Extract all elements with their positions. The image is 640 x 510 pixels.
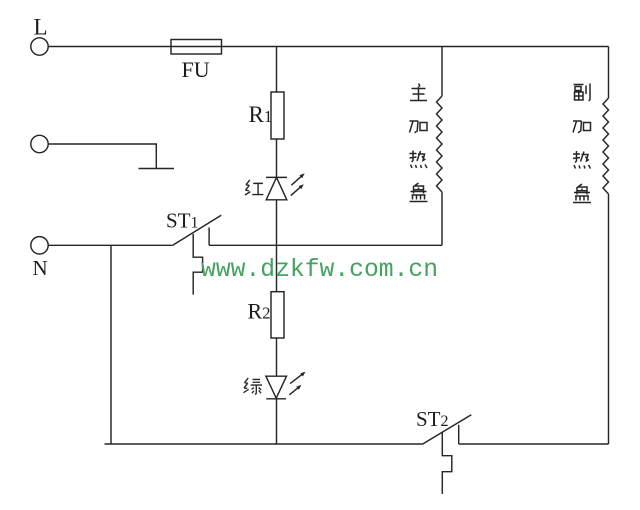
terminal L [31,38,48,55]
LED green [266,372,306,399]
wire LED green to bottom [276,399,278,444]
terminal N [31,237,48,254]
svg-text:www.dzkfw.com.cn: www.dzkfw.com.cn [201,256,438,284]
svg-text:ST2: ST2 [416,407,449,431]
fuse FU [171,40,222,55]
svg-text:FU: FU [182,57,210,82]
terminal earth [31,135,48,152]
label 主加热盘 [410,84,428,202]
resistor R1 [271,92,284,139]
svg-text:R2: R2 [248,299,271,324]
wire R2 to LED green [276,338,278,376]
svg-text:ST1: ST1 [166,209,199,233]
wire main vertical top [276,47,278,93]
label green 绿 [243,378,262,394]
wire ST2 output [459,443,609,445]
earth bar [139,168,175,170]
wire left branch [110,245,112,444]
resistor R2 [271,292,284,338]
svg-text:R1: R1 [249,102,273,127]
heater aux branch wire [603,47,609,445]
wire LED to R2 [276,200,278,292]
wire ST1 output [209,244,442,246]
wire bottom [105,443,423,445]
wire R1 to LED [276,139,278,177]
label red 红 [245,180,263,195]
switch ST2 [423,415,472,494]
label 副加热盘 [573,84,591,203]
wire N [48,244,173,246]
svg-text:L: L [34,15,48,40]
LED red [266,173,305,200]
svg-text:N: N [33,256,48,280]
heater main branch wire [437,47,443,246]
wire top [48,46,608,48]
switch ST1 [173,215,222,294]
wire earth lead [48,144,156,169]
